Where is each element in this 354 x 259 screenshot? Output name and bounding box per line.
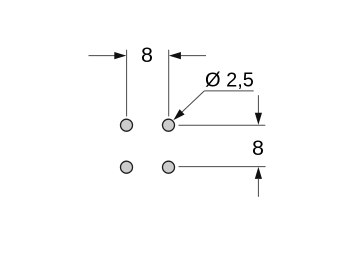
dimension line left segment (horizontal 8) [89,55,116,57]
leader diagonal line to top-right hole [182,91,205,113]
vertical dimension line above (8 right) [257,95,259,113]
hole bottom-left [121,161,133,173]
arrowhead pointing right at left extension line [114,52,126,59]
arrowhead pointing up at bottom extension line [255,167,262,179]
extension line from top-right hole (vertical) [168,50,170,117]
vertical dimension line below (8 right) [257,178,259,197]
leader arrowhead at top-right hole [173,109,184,120]
dimension line right segment (horizontal 8) [181,55,207,57]
svg-text:8: 8 [252,136,264,160]
extension line from top-right hole (horizontal) [179,124,266,126]
hole bottom-right [163,161,175,173]
hole top-left [121,119,133,131]
arrowhead pointing left at right extension line [169,52,181,59]
extension line from bottom-right hole (horizontal) [179,166,266,168]
arrowhead pointing down at top extension line [255,113,262,125]
extension line from top-left hole (vertical) [126,50,128,117]
leader underline below label [204,90,253,92]
svg-text:8: 8 [141,43,153,67]
hole top-right [163,119,175,131]
svg-text:Ø 2,5: Ø 2,5 [205,69,254,91]
